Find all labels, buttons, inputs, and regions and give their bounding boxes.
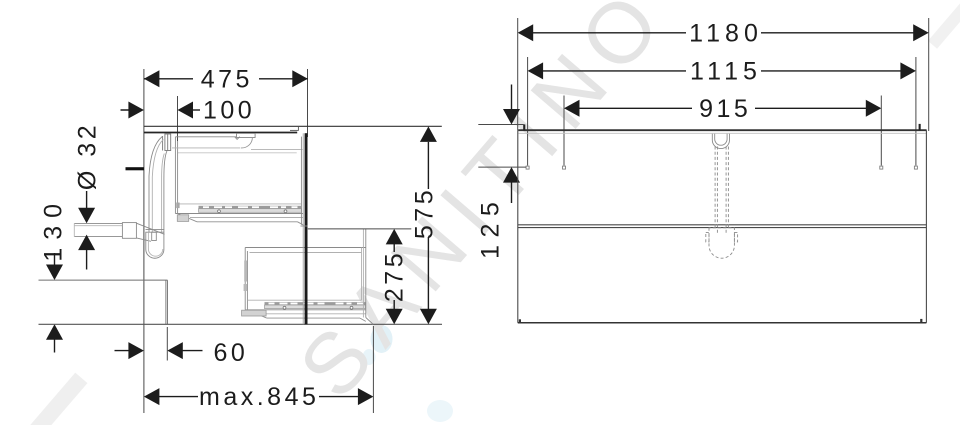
svg-text:275: 275 — [380, 250, 408, 302]
dim 275 — [308, 228, 412, 230]
front panel (black) — [305, 133, 308, 324]
lower drawer brackets & foot — [242, 261, 267, 317]
svg-text:max.845: max.845 — [199, 383, 319, 411]
cabinet body — [518, 130, 927, 322]
upper drawer — [172, 137, 304, 225]
svg-text:915: 915 — [699, 95, 751, 123]
dim 475 — [144, 70, 308, 87]
siphon dashed — [706, 134, 738, 258]
wall outlet stub — [126, 167, 144, 170]
cabinet bottom line — [39, 323, 443, 325]
horizontal outlet pipe — [74, 223, 122, 236]
upper rail (slide) — [199, 206, 302, 213]
ext lines 915 — [563, 96, 565, 166]
mounting holes — [526, 166, 917, 169]
pipe coupling — [122, 223, 136, 239]
dim 60 — [115, 342, 203, 359]
drain pipe with curves — [149, 137, 167, 233]
corner tabs — [523, 124, 525, 130]
lower drawer — [245, 248, 366, 322]
reference line y280 — [39, 279, 168, 281]
extension line 475 right — [307, 69, 309, 137]
dim max.845 — [144, 388, 374, 405]
basin drain block — [163, 134, 171, 151]
svg-text:130: 130 — [40, 196, 68, 262]
countertop / washbasin slab — [144, 126, 442, 153]
ext lines 1115 — [527, 57, 529, 166]
svg-text:60: 60 — [214, 339, 249, 367]
extension line 100 — [177, 96, 179, 141]
dim 100 — [121, 102, 201, 119]
svg-text:1115: 1115 — [690, 57, 762, 85]
dim 130 — [46, 253, 63, 353]
svg-text:100: 100 — [203, 97, 255, 125]
wall line — [143, 69, 145, 413]
upper drawer foot & bracket — [176, 203, 189, 222]
bottom corner ticks — [519, 319, 521, 323]
cabinet top edge — [518, 129, 926, 131]
svg-text:125: 125 — [477, 195, 505, 259]
lower drawer front panel — [363, 229, 373, 324]
ext lines 1180 — [517, 18, 519, 130]
seam on front — [301, 225, 308, 227]
svg-text:Ø 32: Ø 32 — [74, 122, 102, 190]
svg-text:1180: 1180 — [689, 19, 763, 47]
dim 1180 — [518, 24, 929, 41]
standpipe below trap — [166, 280, 168, 324]
siphon trap cup — [146, 230, 165, 259]
dim 1115 — [528, 62, 916, 79]
dim 575 — [420, 126, 437, 324]
svg-text:475: 475 — [201, 65, 253, 93]
dim Ø32 — [78, 191, 95, 270]
cone adapter — [136, 223, 164, 241]
dim 915 — [564, 100, 881, 117]
svg-text:575: 575 — [411, 187, 439, 239]
dim 125 — [478, 124, 523, 126]
lower rail (slide) — [265, 302, 366, 309]
